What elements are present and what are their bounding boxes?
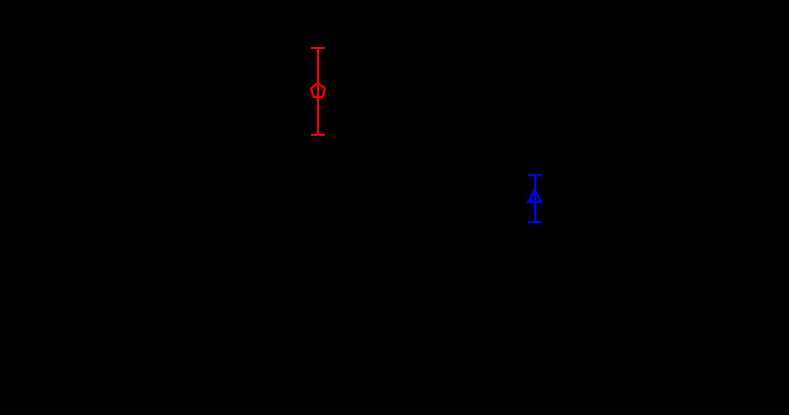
red errorbar bottom cap — [311, 134, 325, 136]
red errorbar top cap — [311, 47, 325, 49]
blue marker inner overlap stroke — [530, 194, 533, 201]
blue triangle marker — [528, 190, 541, 202]
red pentagon marker — [311, 83, 325, 97]
blue errorbar top cap — [528, 174, 542, 176]
blue errorbar bottom cap — [528, 221, 542, 223]
red errorbar series: vertical error line — [317, 48, 319, 135]
blue errorbar series: vertical error line — [534, 175, 536, 222]
